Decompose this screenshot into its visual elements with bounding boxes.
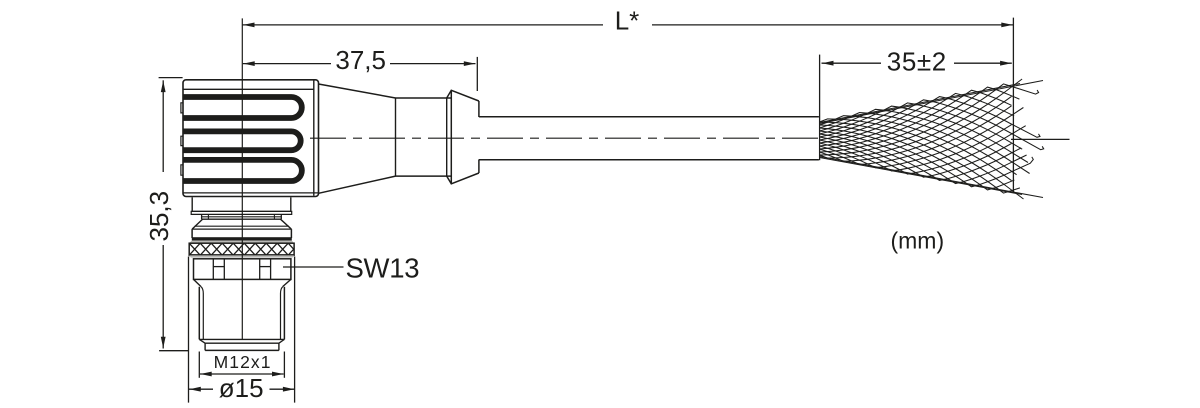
svg-text:35±2: 35±2 bbox=[887, 47, 947, 77]
svg-text:(mm): (mm) bbox=[890, 227, 944, 253]
svg-text:SW13: SW13 bbox=[346, 253, 420, 284]
svg-text:35,3: 35,3 bbox=[144, 191, 174, 242]
svg-text:M12x1: M12x1 bbox=[214, 352, 272, 372]
svg-text:37,5: 37,5 bbox=[335, 45, 386, 75]
svg-text:ø15: ø15 bbox=[219, 373, 264, 403]
svg-text:L*: L* bbox=[615, 6, 640, 36]
